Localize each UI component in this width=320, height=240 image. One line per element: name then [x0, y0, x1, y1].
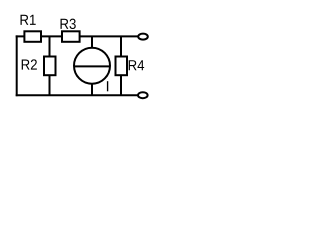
- wire source branch: [91, 36, 93, 95]
- label I: [107, 81, 108, 91]
- terminal bottom: [138, 92, 148, 98]
- wire R2 branch: [49, 36, 51, 95]
- resistor R2: [44, 57, 56, 76]
- label R2: [22, 59, 37, 69]
- wire left: [16, 35, 18, 96]
- label R4: [129, 60, 144, 70]
- terminal top: [138, 34, 148, 40]
- label R1: [21, 15, 36, 25]
- label R3: [61, 19, 76, 29]
- wire top: [16, 35, 143, 37]
- current source I: [74, 48, 111, 84]
- wire bottom: [16, 94, 143, 96]
- wire R4 branch: [120, 36, 122, 95]
- resistor R3: [62, 31, 80, 42]
- resistor R1: [24, 31, 41, 42]
- resistor R4: [116, 57, 128, 76]
